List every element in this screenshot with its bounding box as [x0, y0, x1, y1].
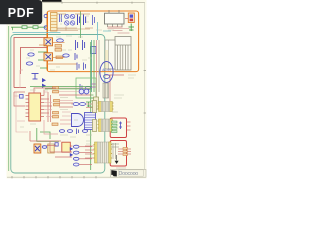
red stubs to headers — [85, 104, 94, 158]
resistor stack R7 — [73, 145, 79, 166]
schmitt gate U6 — [72, 114, 84, 127]
page frame right line — [144, 3, 146, 178]
cyan bus wires — [13, 22, 98, 40]
capacitor CX1 — [60, 14, 62, 22]
small blue box — [55, 143, 58, 146]
frame tick marks top — [62, 2, 132, 4]
diode column D4 — [70, 147, 73, 157]
red wires top of U1 — [34, 88, 91, 107]
red section box B1 — [110, 118, 126, 138]
pink wires mid right — [44, 120, 71, 134]
B2 contents: wires — [111, 143, 119, 159]
left red box wires — [14, 38, 47, 88]
relay leg wires — [108, 29, 130, 34]
opto U8 — [34, 144, 41, 153]
IC U4 small — [91, 47, 97, 54]
relay block K1 — [105, 40, 115, 69]
green symbols mid — [86, 102, 91, 107]
brown wiring band — [48, 27, 93, 31]
varistor RV1 — [129, 24, 135, 32]
transformer T3 — [93, 142, 112, 163]
vertical bus wires — [92, 40, 100, 110]
comb connector array CN1 — [115, 37, 131, 71]
resistor R6 row — [73, 103, 86, 106]
faint label marks — [20, 16, 136, 168]
title block box — [111, 169, 147, 177]
B1 probe — [119, 122, 122, 130]
resistor R3 — [26, 62, 32, 65]
ground arrow — [115, 161, 119, 164]
wire hot — [47, 12, 49, 71]
orange bottom line wires — [104, 75, 124, 101]
PDF badge — [0, 0, 42, 24]
page background — [7, 0, 147, 179]
green outer border wire left — [8, 26, 10, 171]
diode bridge D3 — [79, 89, 89, 94]
bulk capacitor C1 — [78, 15, 86, 26]
page frame bottom line — [7, 176, 145, 178]
green top components — [22, 26, 38, 29]
common-mode choke L1 — [51, 13, 58, 32]
green top wire — [11, 26, 46, 28]
extra pink wiring mesh left — [14, 70, 93, 132]
big orange section box — [47, 11, 139, 72]
wire bus top — [57, 14, 90, 29]
header H2 — [93, 101, 97, 113]
comb connector CN2 — [103, 83, 109, 98]
bottom red wires — [30, 131, 92, 165]
regulator U9a — [48, 144, 54, 153]
components in green box — [80, 84, 91, 92]
B2 pin rows — [118, 149, 131, 154]
header H1 — [91, 95, 99, 109]
TI logo — [111, 170, 117, 176]
B1 contents: load resistors — [112, 121, 118, 133]
regulator U9 — [62, 142, 71, 152]
resistor stack RN2 — [52, 87, 60, 126]
ground wire — [116, 155, 118, 161]
red wires around U1 — [14, 90, 52, 123]
capacitor C5 left of U1 — [20, 95, 24, 99]
green vert wire top — [80, 12, 82, 39]
B2 pin stack — [123, 148, 128, 156]
capacitor C2 — [32, 74, 39, 80]
resistor network RN1 — [55, 45, 63, 59]
bottom green wire loop — [37, 128, 59, 141]
opto U2 — [44, 38, 53, 46]
B1 right stubs — [127, 122, 131, 130]
svg-text:AC IN: AC IN — [102, 68, 111, 72]
opto U3 — [44, 53, 53, 61]
capacitor C7 — [93, 15, 95, 25]
main IC U1 — [26, 93, 45, 121]
relay module U5 — [105, 10, 125, 27]
capacitor C4 — [75, 53, 77, 60]
green section box mid — [76, 78, 96, 98]
header H3 — [93, 120, 97, 132]
diode D2 pair — [42, 78, 46, 88]
AC input connector J1 — [44, 14, 47, 29]
transformer T2 — [97, 119, 113, 132]
page frame top line — [7, 2, 145, 4]
transformer T1 — [97, 102, 113, 112]
green section box (teal rounded) — [11, 35, 105, 174]
cyan stub — [103, 30, 111, 32]
resistor R5 — [63, 54, 69, 57]
wire module drop — [108, 19, 129, 28]
resistor R4 — [57, 39, 64, 42]
fuse F1 — [128, 13, 134, 23]
svg-text:PDF: PDF — [8, 6, 35, 20]
bridge rectifier D1 — [65, 14, 75, 25]
frame tick marks right — [144, 71, 146, 114]
striped IC U7 — [85, 113, 96, 130]
resistor R2 — [28, 53, 34, 56]
frame tick marks bottom — [12, 176, 96, 178]
purple marks — [92, 84, 96, 87]
red section box B2 — [110, 141, 126, 167]
green double wire to IC — [30, 87, 92, 89]
green stub wires — [13, 27, 48, 68]
capacitor C3 — [76, 40, 85, 50]
orange mid wires — [39, 43, 77, 65]
blue row above bottom — [59, 129, 87, 135]
resistor R8 — [42, 146, 46, 149]
capacitor C6 pair — [77, 63, 86, 71]
long green rail — [90, 42, 92, 170]
black top bar segment — [42, 0, 62, 2]
meter circle M1 — [100, 62, 113, 83]
